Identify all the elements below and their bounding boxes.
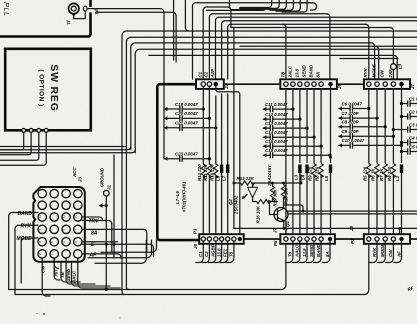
svg-text:SEND: SEND [66,268,71,281]
svg-text:R8 220: R8 220 [315,166,320,181]
svg-text:R12 220: R12 220 [197,164,202,181]
svg-text:R9 220: R9 220 [308,166,313,181]
svg-text:PLL: PLL [2,2,11,17]
svg-text:C10 0.0047: C10 0.0047 [342,138,365,143]
svg-text:MODE: MODE [17,236,33,242]
svg-text:C19 0.0047: C19 0.0047 [175,102,198,107]
svg-text:12: 12 [38,215,42,219]
svg-text:R13 22K: R13 22K [237,176,255,181]
svg-text:CW: CW [388,249,393,257]
svg-text:R11 220: R11 220 [203,164,208,181]
svg-text:J6: J6 [193,244,198,249]
svg-text:2AF: 2AF [388,69,393,79]
svg-text:C1: C1 [198,71,203,77]
svg-text:Q2: Q2 [228,199,233,205]
svg-text:C23 0.0047: C23 0.0047 [175,152,198,157]
svg-text:J8: J8 [349,226,354,231]
svg-text:R10 220: R10 220 [209,164,214,181]
svg-text:11: 11 [62,215,66,218]
svg-text:R7 1K: R7 1K [379,168,384,181]
svg-text:ACC: ACC [72,167,77,178]
svg-text:TRV: TRV [89,219,100,225]
svg-text:MODE: MODE [371,63,376,77]
svg-text:R19 30K: R19 30K [273,189,278,207]
svg-text:TB: TB [60,271,65,278]
svg-text:SEND: SEND [309,244,314,257]
svg-text:AF: AF [396,251,401,258]
svg-text:C2: C2 [204,71,209,77]
svg-text:GROUND: GROUND [100,167,105,187]
svg-text:2ALC: 2ALC [287,65,292,78]
svg-text:AALC: AALC [295,244,300,258]
svg-text:R18 100: R18 100 [284,187,289,204]
svg-text:AGBP: AGBP [211,244,216,258]
svg-text:C14 0.0047: C14 0.0047 [265,130,288,135]
svg-text:13.8: 13.8 [302,248,307,257]
svg-text:MODE: MODE [380,243,385,257]
svg-text:J7: J7 [410,84,415,89]
svg-text:C11 0.0047: C11 0.0047 [265,102,288,107]
svg-text:T8: T8 [229,251,234,257]
svg-text:C20 0.0047: C20 0.0047 [175,111,198,116]
svg-text:T8: T8 [288,251,293,257]
svg-text:A2P: A2P [210,69,215,79]
svg-text:L3: L3 [294,174,299,180]
svg-text:( OPTION ): ( OPTION ) [38,69,45,106]
svg-text:C12 0.0047: C12 0.0047 [265,112,288,117]
svg-text:SEND: SEND [301,64,306,77]
svg-text:R16 10K: R16 10K [256,205,261,223]
svg-text:R6 1K: R6 1K [371,168,376,181]
svg-text:J3: J3 [78,177,83,182]
svg-text:RYK: RYK [372,247,377,257]
svg-text:Q1: Q1 [285,221,290,227]
svg-text:RIT: RIT [54,269,59,276]
svg-text:J7: J7 [273,228,278,233]
svg-text:C13 0.0047: C13 0.0047 [265,121,288,126]
svg-text:13.8: 13.8 [216,248,221,257]
svg-text:C16 0.0047: C16 0.0047 [265,148,288,153]
svg-text:13.8: 13.8 [294,68,299,77]
svg-text:BAND: BAND [308,64,313,78]
svg-text:8A: 8A [316,72,321,78]
svg-text:C15 0.0047: C15 0.0047 [265,139,288,144]
svg-text:C21 0.0047: C21 0.0047 [175,121,198,126]
svg-text:L7: L7 [222,175,227,181]
svg-text:P5: P5 [273,240,278,246]
svg-text:TB: TB [280,71,285,78]
svg-text:2SA1015Y: 2SA1015Y [267,164,272,187]
svg-text:#T01(VHF)-461: #T01(VHF)-461 [182,181,187,212]
svg-text:CW: CW [41,265,46,273]
svg-text:SW REG: SW REG [48,64,60,111]
svg-text:L6: L6 [216,175,221,181]
svg-text:BAND: BAND [18,211,33,217]
svg-text:C2: C2 [204,251,209,257]
svg-text:R5 220: R5 220 [362,166,367,181]
svg-text:BAND: BAND [316,243,321,257]
svg-text:RYK: RYK [363,67,368,77]
svg-text:J1: J1 [107,185,112,190]
svg-text:FE1: FE1 [223,248,228,257]
svg-text:8A: 8A [91,231,98,237]
svg-text:CW: CW [380,69,385,77]
svg-text:L1: L1 [395,175,400,181]
svg-text:L7~L9: L7~L9 [175,191,180,204]
svg-text:P2: P2 [350,238,355,244]
svg-text:R4 220: R4 220 [387,166,392,181]
svg-text:2SC3402: 2SC3402 [234,195,239,215]
svg-text:RYK: RYK [21,224,32,230]
svg-text:8A: 8A [325,251,330,257]
svg-text:L5: L5 [324,175,329,181]
svg-text:10: 10 [74,215,78,219]
svg-text:P3: P3 [193,228,198,234]
svg-text:C1: C1 [198,251,203,257]
